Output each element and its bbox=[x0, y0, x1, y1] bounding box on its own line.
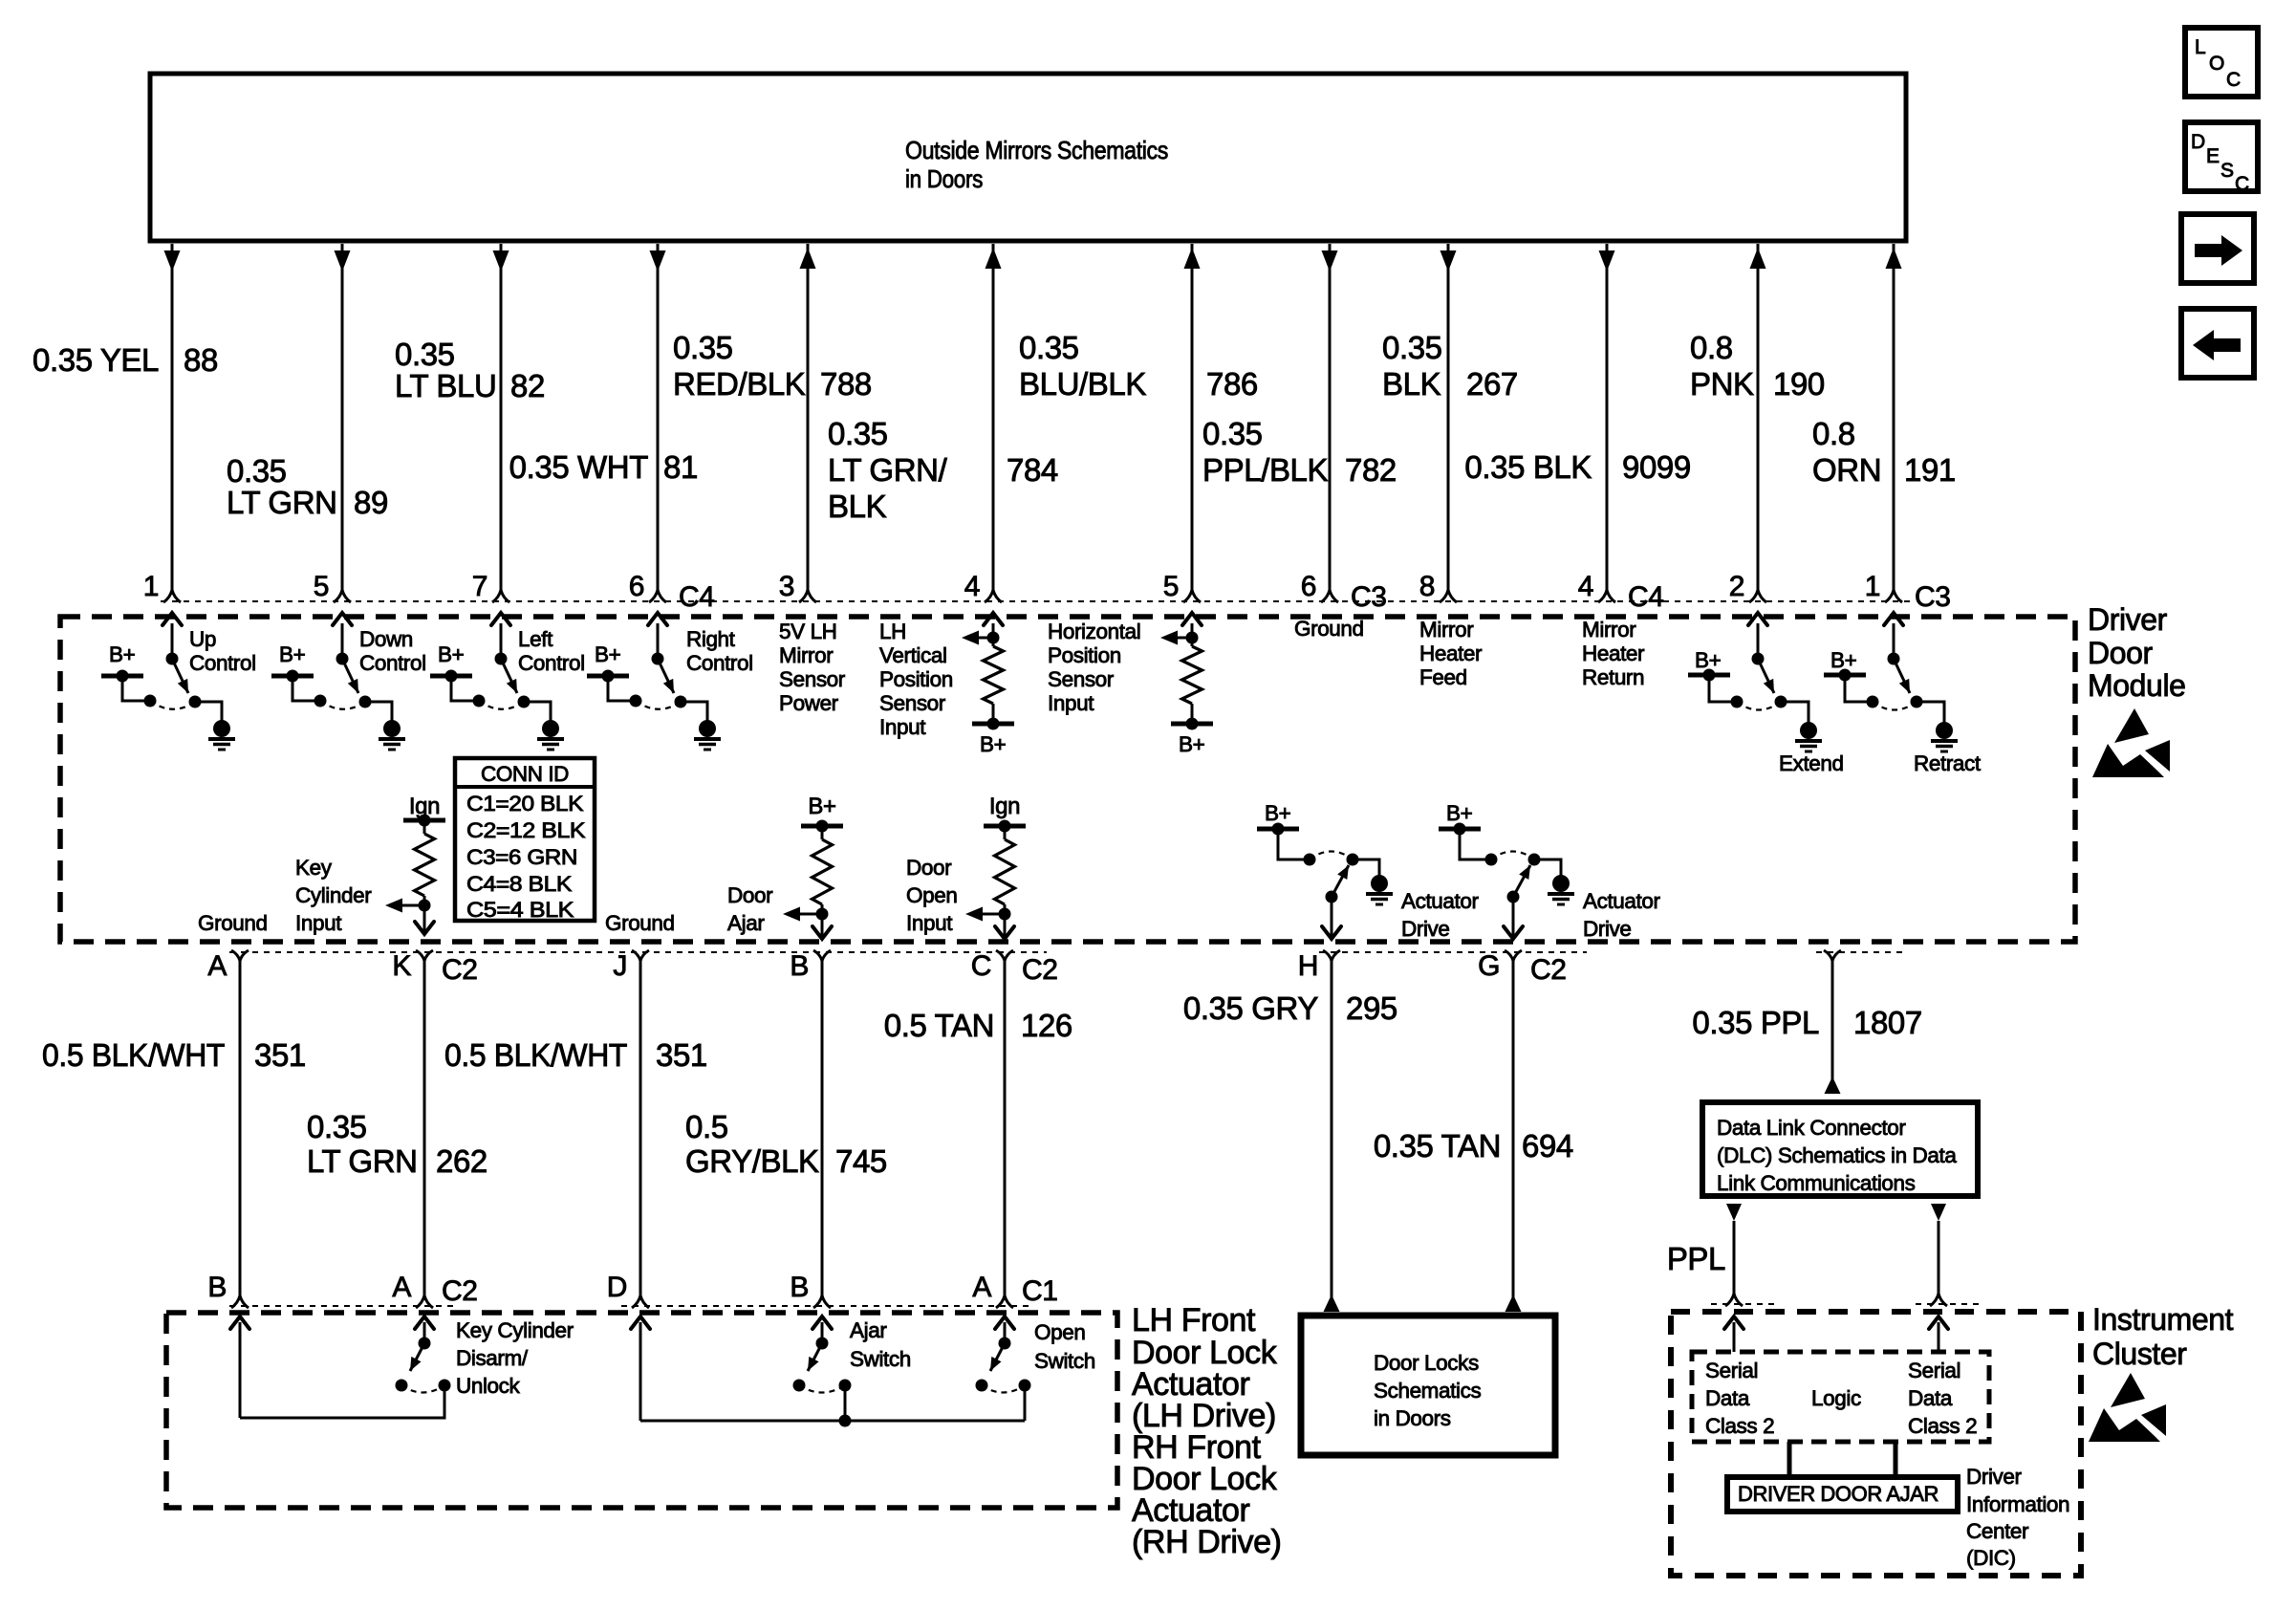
switch: key cylinder disarm/unlock bbox=[396, 1316, 451, 1393]
svg-text:Class 2: Class 2 bbox=[1705, 1414, 1774, 1438]
switch: actuator drive (pin G) bbox=[1439, 801, 1574, 939]
button back (left arrow) bbox=[2181, 309, 2254, 378]
wire 0.35 GRY 295 (H) bbox=[1324, 961, 1340, 1312]
label 0.35 LT GRN bbox=[227, 453, 337, 520]
svg-text:Right: Right bbox=[686, 627, 736, 651]
svg-text:G: G bbox=[1478, 950, 1500, 982]
svg-text:7: 7 bbox=[472, 571, 487, 602]
svg-text:PPL/BLK: PPL/BLK bbox=[1202, 452, 1329, 488]
connector label C3 bbox=[1351, 581, 1387, 613]
connector pin H (module bottom) bbox=[1298, 950, 1340, 982]
connector pin 5 (top, wire 0.35 BLU/BLK 786) bbox=[1163, 571, 1201, 602]
svg-text:LT BLU: LT BLU bbox=[395, 368, 496, 403]
label 0.35 GRY bbox=[1183, 990, 1318, 1026]
label Ground (pin 6 C3) bbox=[1294, 617, 1364, 641]
connector pin A (actuator box top) bbox=[392, 1272, 477, 1308]
svg-text:Down: Down bbox=[359, 627, 413, 651]
label 89 bbox=[354, 485, 388, 520]
box: Door Locks Schematics in Doors bbox=[1301, 1316, 1555, 1455]
label Ajar Switch bbox=[850, 1318, 911, 1371]
wire into serial data (left) bbox=[1724, 1316, 1744, 1352]
svg-text:0.5 TAN: 0.5 TAN bbox=[884, 1008, 994, 1043]
label 784 bbox=[1007, 452, 1058, 488]
svg-text:Sensor: Sensor bbox=[1048, 667, 1115, 691]
connector pin 1 (top, wire 0.8 ORN 191) bbox=[1865, 571, 1902, 602]
svg-text:Mirror: Mirror bbox=[1582, 618, 1636, 642]
svg-text:C3=6 GRN: C3=6 GRN bbox=[466, 845, 577, 869]
svg-text:C: C bbox=[2235, 173, 2249, 195]
svg-text:4: 4 bbox=[964, 571, 980, 602]
label 1807 bbox=[1853, 1005, 1922, 1040]
connector pin B (module bottom) bbox=[790, 950, 831, 982]
Driver Door Module dashed box bbox=[60, 617, 2075, 942]
svg-text:Drive: Drive bbox=[1583, 917, 1632, 941]
svg-text:Switch: Switch bbox=[850, 1347, 911, 1371]
connector pin B (actuator box top) bbox=[207, 1272, 249, 1308]
svg-text:1: 1 bbox=[1865, 571, 1880, 602]
svg-text:0.8: 0.8 bbox=[1690, 330, 1733, 365]
svg-text:190: 190 bbox=[1773, 366, 1825, 402]
switch: actuator drive (pin H) bbox=[1257, 801, 1393, 939]
button DESC bbox=[2185, 122, 2258, 195]
svg-text:782: 782 bbox=[1345, 452, 1397, 488]
label 0.35 TAN bbox=[1374, 1128, 1501, 1164]
connector pin 4 (top, wire 0.35 LT GRN/BLK 784) bbox=[964, 571, 1002, 602]
label Instrument Cluster bbox=[2092, 1302, 2234, 1371]
svg-text:DRIVER DOOR AJAR: DRIVER DOOR AJAR bbox=[1738, 1482, 1939, 1506]
wire A-B inside actuator box bbox=[230, 1316, 444, 1418]
switch: Retract (pin 1 C3) bbox=[1824, 613, 1982, 775]
label 0.5 TAN bbox=[884, 1008, 994, 1043]
label 351 (A) bbox=[254, 1037, 306, 1073]
wire 0.35 BLU/BLK 786 (vertical) bbox=[1184, 244, 1201, 590]
wire 0.5 TAN 126 (C to A) bbox=[1004, 961, 1007, 1295]
resistor: horizontal position sensor (pin 5) bbox=[1160, 613, 1213, 756]
label LH Vertical Position Sensor Input bbox=[879, 620, 953, 739]
label Driver Door Module bbox=[2088, 602, 2186, 703]
svg-text:RED/BLK: RED/BLK bbox=[673, 366, 806, 402]
svg-text:E: E bbox=[2206, 145, 2220, 167]
svg-text:Ign: Ign bbox=[989, 794, 1020, 819]
label 262 bbox=[436, 1143, 487, 1179]
svg-text:B+: B+ bbox=[1695, 648, 1722, 672]
wire 0.35 YEL 88 (vertical) bbox=[164, 244, 181, 590]
label 82 bbox=[510, 368, 545, 403]
label 295 bbox=[1346, 990, 1397, 1026]
svg-text:C: C bbox=[2226, 69, 2241, 91]
svg-text:B+: B+ bbox=[1446, 801, 1473, 825]
svg-text:0.35: 0.35 bbox=[395, 337, 455, 372]
door lock actuator dashed box bbox=[166, 1313, 1117, 1508]
svg-text:B+: B+ bbox=[1830, 648, 1857, 672]
svg-text:LT GRN: LT GRN bbox=[307, 1143, 418, 1179]
svg-text:81: 81 bbox=[663, 449, 698, 485]
svg-text:Control: Control bbox=[359, 651, 426, 675]
svg-text:C2: C2 bbox=[442, 954, 478, 986]
svg-text:Up: Up bbox=[189, 627, 216, 651]
svg-text:Key: Key bbox=[295, 856, 333, 880]
label Ign (key cylinder resistor) bbox=[409, 794, 440, 819]
connector pin 5 (top, wire 0.35 LT GRN 89) bbox=[314, 571, 351, 602]
svg-text:C2: C2 bbox=[1022, 954, 1058, 986]
svg-text:Disarm/: Disarm/ bbox=[456, 1346, 529, 1370]
svg-text:B+: B+ bbox=[1265, 801, 1291, 825]
svg-text:Data: Data bbox=[1908, 1386, 1953, 1410]
label 0.35 LT GRN bbox=[307, 1109, 418, 1179]
svg-text:PPL: PPL bbox=[1667, 1241, 1725, 1276]
svg-text:Ground: Ground bbox=[605, 911, 675, 935]
label 191 bbox=[1904, 452, 1956, 488]
connector pin D (actuator box top) bbox=[607, 1272, 649, 1308]
wire 0.5 GRY/BLK 745 (B to B) bbox=[821, 961, 824, 1295]
button LOC bbox=[2185, 28, 2258, 97]
switch: open switch bbox=[976, 1316, 1031, 1421]
svg-text:C3: C3 bbox=[1351, 581, 1387, 613]
svg-text:295: 295 bbox=[1346, 990, 1397, 1026]
svg-text:B+: B+ bbox=[279, 642, 306, 666]
label Open Switch bbox=[1034, 1320, 1095, 1373]
label Actuator Drive (G) bbox=[1583, 889, 1661, 941]
label Horizontal Position Sensor Input bbox=[1048, 620, 1140, 715]
label 0.35 RED/BLK bbox=[673, 330, 806, 402]
svg-text:C2: C2 bbox=[442, 1275, 478, 1307]
svg-text:CONN ID: CONN ID bbox=[481, 762, 569, 786]
svg-text:BLK: BLK bbox=[1382, 366, 1441, 402]
svg-text:262: 262 bbox=[436, 1143, 487, 1179]
svg-text:(DLC) Schematics in Data: (DLC) Schematics in Data bbox=[1717, 1143, 1957, 1167]
svg-text:Link Communications: Link Communications bbox=[1717, 1171, 1916, 1195]
svg-text:5V LH: 5V LH bbox=[779, 620, 837, 643]
label 0.5 BLK/WHT (A) bbox=[42, 1037, 225, 1073]
switch: Left Control (pin 7) bbox=[430, 613, 585, 750]
label Driver Information Center (DIC) bbox=[1966, 1465, 2069, 1570]
svg-text:Actuator: Actuator bbox=[1583, 889, 1661, 913]
connector pin C (module bottom) bbox=[971, 950, 1058, 986]
svg-text:191: 191 bbox=[1904, 452, 1956, 488]
svg-text:694: 694 bbox=[1522, 1128, 1573, 1164]
label Mirror Heater Feed (pin 8) bbox=[1419, 618, 1483, 689]
svg-text:4: 4 bbox=[1578, 571, 1593, 602]
connector pin J (module bottom) bbox=[613, 950, 649, 982]
box: Outside Mirrors Schematics in Doors bbox=[150, 74, 1906, 241]
connector pin G (module bottom) bbox=[1478, 950, 1567, 986]
svg-text:GRY/BLK: GRY/BLK bbox=[685, 1143, 819, 1179]
switch: Up Control (pin 1) bbox=[101, 613, 256, 750]
svg-text:Control: Control bbox=[189, 651, 256, 675]
label 0.35 PPL bbox=[1692, 1005, 1819, 1040]
svg-text:Power: Power bbox=[779, 691, 839, 715]
svg-text:H: H bbox=[1298, 950, 1318, 982]
svg-text:B+: B+ bbox=[1179, 732, 1205, 756]
connector dashes (instrument cluster) bbox=[1711, 1303, 1982, 1305]
label Ign (door open resistor) bbox=[989, 794, 1020, 819]
svg-text:6: 6 bbox=[629, 571, 644, 602]
svg-text:1: 1 bbox=[143, 571, 159, 602]
svg-text:C4: C4 bbox=[679, 581, 715, 613]
instrument cluster dashed box bbox=[1671, 1312, 2081, 1576]
label 190 bbox=[1773, 366, 1825, 402]
svg-text:Logic: Logic bbox=[1811, 1386, 1861, 1410]
label 788 bbox=[820, 366, 872, 402]
svg-text:B: B bbox=[207, 1272, 227, 1303]
svg-text:Heater: Heater bbox=[1582, 642, 1645, 665]
svg-text:0.35: 0.35 bbox=[1202, 416, 1263, 451]
label B+ (door ajar resistor) bbox=[808, 794, 835, 819]
svg-text:Sensor: Sensor bbox=[779, 667, 846, 691]
wire 0.8 PNK 190 (vertical) bbox=[1750, 244, 1766, 590]
svg-text:0.35: 0.35 bbox=[673, 330, 733, 365]
label 0.35 BLU/BLK bbox=[1019, 330, 1146, 402]
connector pin A (module bottom) bbox=[207, 950, 249, 982]
label Door Ajar bbox=[727, 883, 773, 935]
connector pin 6 (top, wire 0.35 WHT 81) bbox=[629, 571, 666, 602]
label 5V LH Mirror Sensor Power bbox=[779, 620, 846, 715]
connector pin PPL wire (module bottom) bbox=[1824, 950, 1841, 961]
svg-text:Ajar: Ajar bbox=[727, 911, 765, 935]
svg-text:A: A bbox=[392, 1272, 411, 1303]
connector pin K (module bottom) bbox=[392, 950, 477, 986]
wire 0.35 RED/BLK 788 (vertical) bbox=[800, 244, 816, 590]
svg-text:Mirror: Mirror bbox=[779, 643, 834, 667]
svg-text:0.35 WHT: 0.35 WHT bbox=[509, 449, 649, 485]
svg-text:0.35: 0.35 bbox=[1019, 330, 1079, 365]
connector pin 8 (top, wire 0.35 BLK 267) bbox=[1419, 571, 1457, 602]
label Door Open Input bbox=[906, 856, 957, 935]
connector C2/C1 dashed line (bottom of module) bbox=[229, 951, 1907, 953]
resistor: LH vertical position sensor (pin 4) bbox=[962, 613, 1014, 756]
wire 0.35 WHT 81 (vertical) bbox=[650, 244, 666, 590]
svg-text:Data Link Connector: Data Link Connector bbox=[1717, 1116, 1906, 1140]
svg-text:B: B bbox=[790, 950, 809, 982]
svg-text:126: 126 bbox=[1021, 1008, 1072, 1043]
label 0.8 PNK bbox=[1690, 330, 1754, 402]
label 9099 bbox=[1622, 449, 1691, 485]
label 694 bbox=[1522, 1128, 1573, 1164]
label Serial Data Class 2 (right) bbox=[1908, 1359, 1977, 1438]
label Serial Data Class 2 (left) bbox=[1705, 1359, 1774, 1438]
svg-text:D: D bbox=[607, 1272, 627, 1303]
svg-text:S: S bbox=[2220, 160, 2234, 182]
svg-text:5: 5 bbox=[314, 571, 329, 602]
label 0.35 LT BLU bbox=[395, 337, 496, 403]
label Ground (pin J) bbox=[605, 911, 675, 935]
svg-text:Data: Data bbox=[1705, 1386, 1750, 1410]
svg-text:in Doors: in Doors bbox=[1374, 1406, 1451, 1430]
svg-text:PNK: PNK bbox=[1690, 366, 1754, 402]
svg-text:745: 745 bbox=[835, 1143, 887, 1179]
svg-text:B+: B+ bbox=[595, 642, 621, 666]
svg-text:0.5 BLK/WHT: 0.5 BLK/WHT bbox=[42, 1037, 225, 1073]
svg-text:0.5 BLK/WHT: 0.5 BLK/WHT bbox=[444, 1037, 627, 1073]
svg-text:C2: C2 bbox=[1530, 954, 1567, 986]
svg-text:LT GRN: LT GRN bbox=[227, 485, 337, 520]
svg-text:Position: Position bbox=[1048, 643, 1121, 667]
svg-text:Driver: Driver bbox=[2088, 602, 2168, 637]
label LH/RH Front Door Lock Actuator bbox=[1132, 1302, 1282, 1560]
svg-text:BLU/BLK: BLU/BLK bbox=[1019, 366, 1146, 402]
svg-text:8: 8 bbox=[1419, 571, 1435, 602]
label 0.5 BLK/WHT (J) bbox=[444, 1037, 627, 1073]
label 786 bbox=[1206, 366, 1258, 402]
label Actuator Drive (H) bbox=[1401, 889, 1480, 941]
svg-text:Information: Information bbox=[1966, 1492, 2069, 1516]
svg-text:Open: Open bbox=[1034, 1320, 1085, 1344]
wire 0.5 BLK/WHT 351 (A to B) bbox=[239, 961, 242, 1295]
ESD warning symbol (Driver Door Module) bbox=[2092, 708, 2170, 777]
svg-text:K: K bbox=[392, 950, 411, 982]
svg-text:Door: Door bbox=[906, 856, 952, 880]
label Key Cylinder Disarm/Unlock bbox=[456, 1318, 574, 1398]
svg-text:D: D bbox=[2191, 131, 2205, 153]
svg-text:788: 788 bbox=[820, 366, 872, 402]
wire 0.35 PPL/BLK 782 (vertical) bbox=[1322, 244, 1338, 590]
label PPL bbox=[1667, 1241, 1725, 1276]
resistor: door ajar input pull-up bbox=[783, 820, 843, 940]
switch: Extend (pin 2) bbox=[1688, 613, 1844, 775]
label Logic bbox=[1811, 1386, 1861, 1410]
svg-text:351: 351 bbox=[656, 1037, 707, 1073]
svg-text:LH: LH bbox=[879, 620, 906, 643]
svg-text:0.5: 0.5 bbox=[685, 1109, 728, 1144]
ESD warning symbol (Instrument Cluster) bbox=[2089, 1373, 2166, 1442]
svg-text:B+: B+ bbox=[808, 794, 835, 819]
connector pin 3 (top, wire 0.35 RED/BLK 788) bbox=[779, 571, 816, 602]
svg-text:LT GRN/: LT GRN/ bbox=[828, 452, 948, 488]
resistor: door open input pull-up bbox=[965, 820, 1026, 940]
svg-text:0.35 TAN: 0.35 TAN bbox=[1374, 1128, 1501, 1164]
svg-text:267: 267 bbox=[1466, 366, 1518, 402]
connector label C3 bbox=[1915, 581, 1951, 613]
svg-text:Center: Center bbox=[1966, 1519, 2029, 1543]
connector pin A (actuator box top) bbox=[972, 1272, 1057, 1308]
svg-text:Instrument: Instrument bbox=[2092, 1302, 2234, 1337]
svg-text:6: 6 bbox=[1301, 571, 1316, 602]
wire 0.35 LT GRN 89 (vertical) bbox=[335, 244, 351, 590]
label 0.35 WHT bbox=[509, 449, 649, 485]
wire 0.5 BLK/WHT 351 (J to D) bbox=[639, 961, 642, 1295]
svg-text:9099: 9099 bbox=[1622, 449, 1691, 485]
svg-text:82: 82 bbox=[510, 368, 545, 403]
svg-text:786: 786 bbox=[1206, 366, 1258, 402]
label 0.8 ORN bbox=[1812, 416, 1881, 488]
connector label C4 bbox=[679, 581, 715, 613]
label 126 bbox=[1021, 1008, 1072, 1043]
svg-text:C3: C3 bbox=[1915, 581, 1951, 613]
svg-text:Extend: Extend bbox=[1779, 751, 1844, 775]
svg-text:C4=8 BLK: C4=8 BLK bbox=[466, 872, 572, 896]
switch: Down Control (pin 5) bbox=[271, 613, 426, 750]
svg-text:Serial: Serial bbox=[1705, 1359, 1758, 1382]
label 0.35 BLK bbox=[1382, 330, 1442, 402]
svg-text:0.35: 0.35 bbox=[828, 416, 888, 451]
svg-text:Input: Input bbox=[906, 911, 953, 935]
svg-text:Sensor: Sensor bbox=[879, 691, 946, 715]
svg-text:(RH Drive): (RH Drive) bbox=[1132, 1524, 1282, 1560]
svg-text:89: 89 bbox=[354, 485, 388, 520]
connector pin 4 (top, wire 0.35 BLK 9099) bbox=[1578, 571, 1615, 602]
label Key Cylinder Input bbox=[295, 856, 372, 935]
label Ground (pin A) bbox=[198, 911, 268, 935]
label 81 bbox=[663, 449, 698, 485]
svg-text:Cluster: Cluster bbox=[2092, 1337, 2187, 1371]
svg-text:Door: Door bbox=[2088, 636, 2154, 670]
label Mirror Heater Return (pin 4 C4) bbox=[1582, 618, 1645, 689]
wire serial data (DLC to cluster, right) bbox=[1930, 1204, 1947, 1306]
svg-text:Position: Position bbox=[879, 667, 953, 691]
switch: ajar switch bbox=[793, 1316, 852, 1421]
connector pin B (actuator box top) bbox=[790, 1272, 831, 1308]
svg-text:Switch: Switch bbox=[1034, 1349, 1095, 1373]
svg-text:Control: Control bbox=[518, 651, 585, 675]
svg-text:B+: B+ bbox=[438, 642, 465, 666]
svg-text:Control: Control bbox=[686, 651, 753, 675]
svg-text:Class 2: Class 2 bbox=[1908, 1414, 1977, 1438]
svg-text:C4: C4 bbox=[1628, 581, 1664, 613]
svg-text:ORN: ORN bbox=[1812, 452, 1881, 488]
svg-text:Door: Door bbox=[727, 883, 773, 907]
wire PPL (DLC to cluster, left) bbox=[1725, 1204, 1743, 1306]
svg-text:Return: Return bbox=[1582, 665, 1644, 689]
svg-text:Module: Module bbox=[2088, 668, 2186, 703]
svg-text:0.8: 0.8 bbox=[1812, 416, 1855, 451]
svg-text:C1: C1 bbox=[1022, 1275, 1058, 1307]
svg-text:B: B bbox=[790, 1272, 809, 1303]
svg-text:Left: Left bbox=[518, 627, 553, 651]
wire 0.35 LT GRN 262 (K to A) bbox=[423, 961, 426, 1295]
svg-text:Input: Input bbox=[1048, 691, 1094, 715]
svg-text:B+: B+ bbox=[980, 732, 1007, 756]
svg-text:C2=12 BLK: C2=12 BLK bbox=[466, 818, 585, 842]
svg-text:0.35 GRY: 0.35 GRY bbox=[1183, 990, 1318, 1026]
svg-text:Ground: Ground bbox=[1294, 617, 1364, 641]
svg-text:Key Cylinder: Key Cylinder bbox=[456, 1318, 574, 1342]
svg-text:Vertical: Vertical bbox=[879, 643, 947, 667]
logic dashed box (serial data class 2) bbox=[1692, 1352, 1989, 1442]
svg-text:LH Front: LH Front bbox=[1132, 1302, 1256, 1338]
resistor: key cylinder input pull-up bbox=[385, 815, 445, 935]
label 0.35 LT GRN/ BLK bbox=[828, 416, 948, 524]
wire 0.35 BLK 267 (vertical) bbox=[1440, 244, 1457, 590]
svg-text:J: J bbox=[613, 950, 627, 982]
connector C4/C3 dashed line (top of module) bbox=[161, 600, 1910, 602]
wire 0.35 LT GRN/BLK 784 (vertical) bbox=[986, 244, 1002, 590]
svg-text:B+: B+ bbox=[109, 642, 136, 666]
label 0.5 GRY/BLK bbox=[685, 1109, 819, 1179]
svg-text:Heater: Heater bbox=[1419, 642, 1483, 665]
label 0.35 BLK (9099) bbox=[1464, 449, 1592, 485]
svg-text:Driver: Driver bbox=[1966, 1465, 2023, 1489]
wire into serial data (right) bbox=[1929, 1316, 1948, 1352]
button next (right arrow) bbox=[2181, 214, 2254, 283]
label 351 (J) bbox=[656, 1037, 707, 1073]
svg-text:88: 88 bbox=[184, 342, 218, 378]
svg-text:Unlock: Unlock bbox=[456, 1374, 521, 1398]
svg-text:Outside Mirrors Schematics: Outside Mirrors Schematics bbox=[905, 136, 1168, 164]
svg-text:0.35: 0.35 bbox=[307, 1109, 367, 1144]
wire 0.35 PPL 1807 (DLC) bbox=[1825, 961, 1841, 1094]
label 745 bbox=[835, 1143, 887, 1179]
svg-text:Open: Open bbox=[906, 883, 957, 907]
svg-text:C5=4 BLK: C5=4 BLK bbox=[466, 898, 574, 922]
switch: Right Control (pin 6) bbox=[587, 613, 753, 750]
svg-text:351: 351 bbox=[254, 1037, 306, 1073]
box: Data Link Connector (DLC) bbox=[1702, 1102, 1978, 1196]
svg-text:0.35 YEL: 0.35 YEL bbox=[32, 342, 159, 378]
svg-text:Input: Input bbox=[879, 715, 926, 739]
svg-text:0.35 PPL: 0.35 PPL bbox=[1692, 1005, 1819, 1040]
svg-text:A: A bbox=[972, 1272, 991, 1303]
svg-text:Drive: Drive bbox=[1401, 917, 1450, 941]
